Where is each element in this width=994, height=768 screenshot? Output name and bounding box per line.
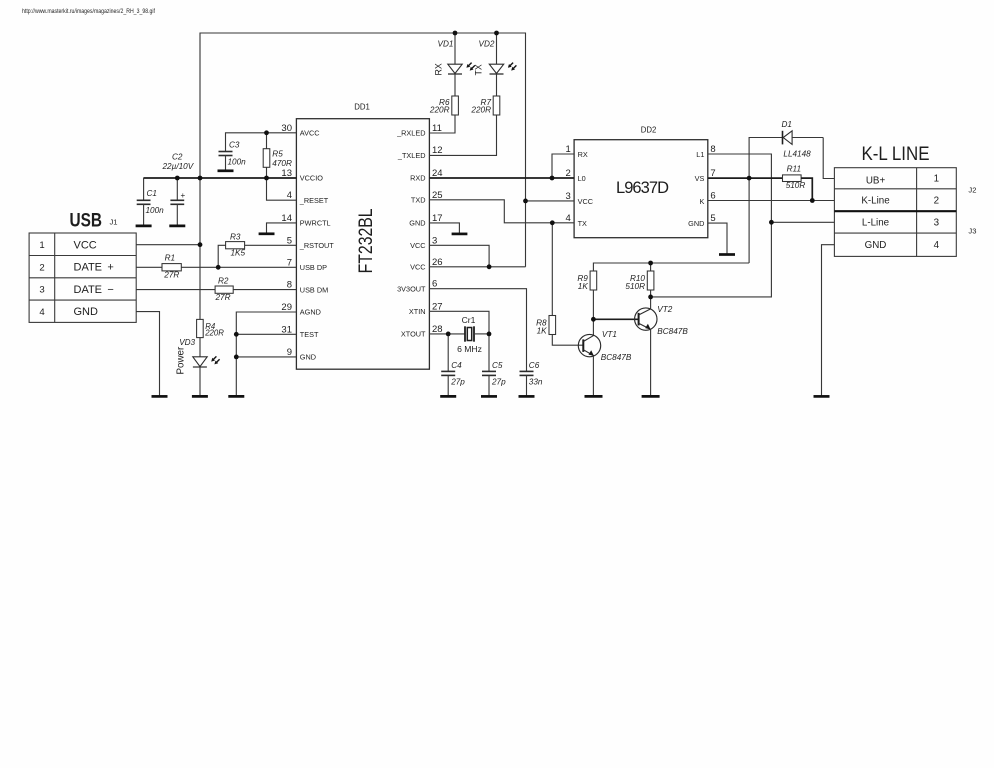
wire VS riser to D1 and rail: [749, 138, 782, 264]
wire 3V3OUT to C6: [429, 289, 526, 372]
svg-text:7: 7: [287, 257, 292, 268]
svg-text:3: 3: [934, 218, 940, 229]
wire AVCC: [226, 133, 297, 152]
wire VCCIO line (thick): [143, 177, 296, 179]
wire DD2 GND pin5: [708, 223, 727, 254]
wire GND9: [236, 356, 296, 358]
svg-text:FT232BL: FT232BL: [356, 208, 377, 273]
diode D1 LL4148: [782, 120, 824, 158]
IC DD1 FT232BL: [296, 103, 429, 370]
svg-text:K-Line: K-Line: [861, 195, 890, 206]
svg-text:C1: C1: [147, 189, 157, 198]
svg-text:27p: 27p: [491, 378, 506, 387]
resistor R7: [470, 96, 499, 115]
wire VCC pin3: [429, 245, 489, 266]
svg-text:VD1: VD1: [438, 40, 454, 49]
wire R1 to USBDP pin: [181, 266, 296, 268]
capacitor C6: [520, 361, 543, 396]
svg-text:6 MHz: 6 MHz: [457, 344, 482, 354]
svg-text:33n: 33n: [529, 378, 543, 387]
svg-text:http://www.masterkit.ru/images: http://www.masterkit.ru/images/magazines…: [22, 8, 155, 15]
wire GND17 to ground: [429, 223, 459, 234]
svg-text:VCCIO: VCCIO: [300, 174, 323, 183]
svg-text:27: 27: [432, 301, 443, 312]
capacitor C4: [441, 334, 465, 397]
wire _RESET to VCCIO: [267, 178, 297, 200]
led arrows VD1: [466, 63, 471, 68]
svg-text:DATE +: DATE +: [74, 262, 114, 274]
svg-text:100n: 100n: [146, 206, 165, 215]
svg-text:PWRCTL: PWRCTL: [300, 219, 331, 228]
svg-text:BC847B: BC847B: [657, 327, 688, 336]
svg-text:R2: R2: [218, 276, 229, 285]
wire VCC pin26: [429, 266, 525, 268]
svg-text:3: 3: [39, 285, 44, 296]
DD2 right pin numbers: [710, 144, 715, 224]
svg-text:USB DM: USB DM: [300, 285, 328, 294]
svg-text:_TXLED: _TXLED: [397, 151, 426, 160]
svg-text:VS: VS: [695, 174, 705, 183]
svg-text:J3: J3: [968, 227, 976, 236]
DD1 right pin numbers: [432, 123, 443, 335]
svg-text:2: 2: [934, 195, 939, 206]
crystal Cr1: [457, 315, 489, 354]
svg-text:DATE −: DATE −: [74, 284, 114, 296]
svg-text:14: 14: [281, 213, 292, 224]
wire VCC top rail: [200, 33, 526, 201]
resistor R5: [263, 133, 292, 178]
wire AGND/TEST/GND bus: [236, 312, 296, 396]
svg-text:31: 31: [281, 324, 292, 335]
svg-text:17: 17: [432, 213, 443, 224]
capacitor C1: [137, 178, 164, 226]
wire R7 to _TXLED: [429, 115, 496, 155]
DD1 left pin numbers: [281, 123, 292, 358]
K-L table text: [861, 174, 939, 251]
svg-text:28: 28: [432, 324, 443, 335]
svg-text:8: 8: [287, 280, 292, 291]
svg-text:C6: C6: [529, 361, 540, 370]
svg-text:GND: GND: [865, 240, 887, 251]
svg-text:DD2: DD2: [641, 126, 657, 135]
wire GND row to ground: [822, 245, 835, 397]
wire R6 to _RXLED: [429, 115, 455, 133]
svg-text:+: +: [181, 191, 186, 200]
svg-text:AGND: AGND: [300, 308, 321, 317]
svg-text:12: 12: [432, 145, 443, 156]
wire VCC vert to DD2: [525, 201, 527, 267]
capacitor C3: [219, 141, 247, 171]
svg-text:R11: R11: [787, 164, 801, 173]
ground C4: [440, 395, 456, 398]
led VD3 Power: [175, 338, 207, 397]
led VD1 RX: [434, 33, 463, 96]
svg-text:USB DP: USB DP: [300, 263, 327, 272]
svg-text:J1: J1: [110, 218, 118, 227]
svg-text:RXD: RXD: [410, 174, 425, 183]
ground C1: [136, 225, 152, 228]
led arrows VD2: [508, 63, 513, 68]
led arrows VD3: [211, 356, 219, 364]
svg-text:Power: Power: [175, 346, 186, 375]
svg-text:AVCC: AVCC: [300, 129, 320, 138]
svg-text:3V3OUT: 3V3OUT: [397, 284, 426, 293]
wire D1 to UB+: [823, 138, 834, 179]
svg-text:R3: R3: [230, 233, 241, 242]
svg-text:RX: RX: [434, 63, 444, 75]
svg-text:LL4148: LL4148: [783, 149, 811, 158]
wire USB VCC row: [136, 244, 200, 246]
wire R9 R10 rail: [593, 263, 749, 271]
connector J1 USB table: [29, 233, 136, 322]
wire DD2 L1 pin8 down to L-line: [651, 154, 772, 297]
svg-text:VD2: VD2: [479, 40, 495, 49]
resistor R11: [783, 164, 813, 200]
ground J3 GND: [814, 395, 830, 398]
resistor R4: [197, 319, 225, 337]
svg-text:2: 2: [39, 262, 44, 273]
svg-text:VT1: VT1: [602, 330, 617, 339]
DD2 left pin numbers: [566, 144, 571, 224]
svg-text:L1: L1: [696, 150, 704, 159]
svg-text:1K: 1K: [578, 282, 589, 291]
svg-text:100n: 100n: [228, 158, 247, 167]
wire XTIN: [429, 311, 489, 334]
svg-text:L0: L0: [578, 174, 586, 183]
svg-text:_RESET: _RESET: [299, 196, 329, 205]
DD2 right pin labels: [688, 150, 704, 228]
DD1 left pin labels: [299, 129, 334, 362]
svg-text:RX: RX: [578, 150, 588, 159]
svg-text:26: 26: [432, 257, 443, 268]
ground USB: [152, 395, 168, 398]
svg-text:220R: 220R: [470, 105, 491, 114]
svg-text:TXD: TXD: [411, 195, 426, 204]
svg-text:VCC: VCC: [410, 241, 425, 250]
wire TXD to TX: [429, 200, 574, 223]
svg-text:D1: D1: [782, 120, 792, 129]
svg-text:Cr1: Cr1: [462, 315, 476, 325]
svg-text:C4: C4: [451, 361, 462, 370]
wire R2 to USBDM pin: [233, 289, 296, 291]
resistor R10: [625, 263, 653, 309]
svg-text:_RSTOUT: _RSTOUT: [299, 241, 334, 250]
USB table text: [39, 239, 113, 318]
svg-text:_RXLED: _RXLED: [396, 129, 425, 138]
ground C6: [519, 395, 535, 398]
svg-text:3: 3: [566, 191, 571, 202]
ground VT2: [642, 395, 660, 398]
svg-text:R5: R5: [272, 150, 283, 159]
wire TEST: [236, 333, 296, 335]
svg-text:27R: 27R: [215, 293, 231, 302]
ground AGND bus: [228, 395, 244, 398]
wire USB DP row: [136, 266, 162, 268]
resistor R3 pullup: [218, 233, 296, 268]
wire VCC vertical to R4: [199, 178, 201, 321]
svg-text:GND: GND: [300, 353, 316, 362]
capacitor C5: [482, 334, 506, 397]
svg-text:K: K: [700, 197, 705, 206]
svg-text:27R: 27R: [163, 271, 179, 280]
svg-text:C5: C5: [492, 361, 503, 370]
svg-text:L9637D: L9637D: [616, 179, 669, 197]
svg-text:5: 5: [287, 235, 292, 246]
svg-text:1K: 1K: [537, 327, 548, 336]
svg-text:UB+: UB+: [866, 175, 886, 186]
svg-text:4: 4: [287, 190, 292, 201]
ground C5: [481, 395, 497, 398]
svg-text:4: 4: [39, 307, 45, 318]
svg-text:GND: GND: [74, 306, 99, 318]
wire USB DM row: [136, 289, 215, 291]
svg-text:J2: J2: [968, 185, 976, 194]
svg-text:1: 1: [934, 174, 939, 185]
svg-text:K-L LINE: K-L LINE: [862, 143, 930, 165]
wire XTOUT: [429, 333, 465, 335]
transistor VT2 BC847B: [635, 305, 689, 396]
ground C2: [169, 225, 185, 228]
svg-text:30: 30: [281, 123, 292, 134]
svg-text:C2: C2: [172, 152, 183, 161]
svg-text:6: 6: [710, 191, 715, 202]
svg-text:1: 1: [566, 144, 571, 155]
svg-text:4: 4: [566, 213, 571, 224]
svg-text:VCC: VCC: [74, 239, 97, 251]
wire RX pin1 tap: [552, 154, 574, 178]
ground VT1: [585, 395, 603, 398]
svg-text:GND: GND: [409, 219, 425, 228]
IC DD2 L9637D: [574, 126, 708, 238]
svg-text:5: 5: [710, 213, 715, 224]
svg-text:R1: R1: [165, 254, 175, 263]
svg-text:TEST: TEST: [300, 330, 319, 339]
resistor R9: [577, 271, 596, 335]
ground VD3: [192, 395, 208, 398]
wire DD2 VCC pin3: [526, 200, 575, 202]
svg-text:TX: TX: [474, 64, 484, 75]
svg-text:TX: TX: [578, 219, 587, 228]
wire USB GND row to ground: [136, 312, 159, 397]
wire RXD to L0 (thick): [429, 177, 574, 179]
svg-text:XTOUT: XTOUT: [401, 330, 426, 339]
svg-text:1K5: 1K5: [231, 249, 246, 258]
ground PWRCTL: [259, 232, 275, 235]
wire VT1 base link: [593, 318, 638, 320]
wire L-Line row: [771, 221, 834, 223]
svg-text:470R: 470R: [272, 159, 292, 168]
svg-text:9: 9: [287, 347, 292, 358]
capacitor C2 electrolytic: [162, 152, 195, 226]
DD1 right pin labels: [396, 129, 426, 339]
svg-text:VCC: VCC: [410, 263, 425, 272]
svg-text:XTIN: XTIN: [409, 307, 426, 316]
svg-text:VT2: VT2: [657, 305, 672, 314]
ground C3: [218, 169, 234, 172]
svg-text:4: 4: [934, 240, 940, 251]
svg-text:27p: 27p: [450, 378, 465, 387]
resistor R2: [215, 276, 234, 302]
svg-text:29: 29: [281, 302, 292, 313]
led VD2 TX: [474, 33, 504, 96]
svg-text:C3: C3: [229, 141, 240, 150]
ground GND17: [452, 233, 468, 236]
svg-text:220R: 220R: [204, 328, 224, 337]
transistor VT1 BC847B: [578, 330, 632, 396]
wire VS pin7 (thick): [708, 177, 783, 179]
svg-text:22µ/10V: 22µ/10V: [162, 162, 195, 171]
resistor R1: [162, 254, 181, 280]
connector J2 J3 K-L LINE table: [834, 168, 956, 257]
svg-text:VCC: VCC: [578, 197, 593, 206]
svg-text:VD3: VD3: [179, 338, 195, 347]
DD2 left pin labels: [578, 150, 593, 228]
svg-text:1: 1: [39, 240, 44, 251]
resistor R8: [536, 223, 583, 345]
svg-text:11: 11: [432, 123, 442, 134]
svg-text:DD1: DD1: [354, 103, 370, 112]
svg-text:L-Line: L-Line: [862, 218, 890, 229]
svg-text:3: 3: [432, 235, 437, 246]
ground DD2: [719, 253, 735, 256]
wire K pin6 to K-Line: [708, 200, 835, 202]
wire PWRCTL to gnd: [267, 223, 297, 234]
svg-text:GND: GND: [688, 219, 704, 228]
svg-text:25: 25: [432, 190, 443, 201]
svg-text:510R: 510R: [625, 282, 645, 291]
svg-text:8: 8: [710, 144, 715, 155]
svg-text:510R: 510R: [786, 181, 806, 190]
svg-text:6: 6: [432, 279, 437, 290]
svg-text:220R: 220R: [429, 105, 450, 114]
svg-text:BC847B: BC847B: [601, 353, 632, 362]
svg-text:USB: USB: [70, 210, 103, 232]
resistor R6: [429, 96, 458, 115]
